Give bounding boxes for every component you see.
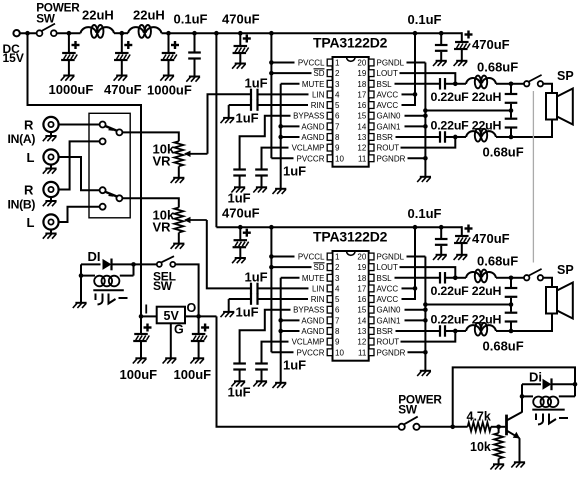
svg-text:TPA3122D2: TPA3122D2	[313, 229, 388, 245]
svg-text:470uF: 470uF	[472, 37, 510, 52]
svg-text:100uF: 100uF	[174, 367, 212, 382]
svg-text:AVCC: AVCC	[377, 284, 399, 293]
wire	[511, 314, 552, 331]
node junction C5	[238, 31, 243, 36]
ground	[165, 357, 176, 359]
wire reg out	[185, 315, 217, 317]
ground	[116, 75, 127, 77]
ground	[456, 60, 467, 62]
ground	[256, 380, 267, 382]
node relay1 right	[131, 262, 136, 267]
svg-text:2: 2	[335, 69, 340, 78]
svg-text:20: 20	[357, 59, 366, 68]
svg-text:1000uF: 1000uF	[147, 83, 192, 98]
svg-text:4: 4	[335, 284, 340, 293]
node AVCC17 U1	[413, 92, 418, 97]
svg-text:0.1uF: 0.1uF	[408, 12, 442, 27]
U2 pin boxes	[327, 253, 332, 260]
wire MUTE/AGND ground vertical U1	[280, 84, 282, 189]
wire pin2 SD	[271, 72, 311, 74]
wire	[452, 330, 466, 332]
svg-text:22uH: 22uH	[133, 8, 165, 23]
svg-text:11: 11	[358, 154, 367, 163]
wire PVCC vertical U2	[270, 227, 272, 352]
ground	[275, 382, 286, 384]
svg-text:1uF: 1uF	[236, 111, 259, 126]
svg-text:0.22uF 22uH: 0.22uF 22uH	[431, 284, 502, 298]
node SD U2	[269, 265, 274, 270]
capacitor C7 470uF	[461, 41, 463, 43]
svg-text:19: 19	[357, 263, 366, 272]
svg-text:470uF: 470uF	[472, 231, 510, 246]
svg-text:19: 19	[357, 69, 366, 78]
wire	[134, 263, 157, 265]
node ROUT out U1	[509, 135, 514, 140]
wire pin14 GAIN1	[405, 319, 426, 321]
ground	[235, 63, 246, 65]
wire	[543, 278, 552, 287]
wire reg input	[141, 315, 157, 317]
svg-text:AVCC: AVCC	[377, 295, 399, 304]
relay RY1 bar	[93, 289, 124, 291]
node junction C10	[439, 225, 444, 230]
switch SP1	[524, 81, 529, 86]
wire 5V to power sw	[217, 316, 399, 426]
wire collector up	[521, 384, 523, 412]
node AVCC17 U2	[413, 286, 418, 291]
wire J1 to selector	[59, 124, 100, 126]
svg-text:15V: 15V	[3, 51, 24, 65]
svg-text:5: 5	[335, 101, 340, 110]
wire reg gnd	[170, 323, 172, 358]
wire AVCC vertical U2	[402, 227, 416, 299]
wire VR2 wiper to C8b	[207, 220, 250, 288]
ground	[235, 257, 246, 259]
svg-text:17: 17	[357, 90, 366, 99]
svg-text:11: 11	[358, 348, 367, 357]
svg-text:0.22uF 22uH: 0.22uF 22uH	[431, 90, 502, 104]
svg-text:0.1uF: 0.1uF	[174, 12, 208, 27]
svg-text:14: 14	[357, 122, 366, 131]
node mid 068 U2	[509, 302, 514, 307]
node relay1 coil left	[79, 273, 84, 278]
wire	[114, 32, 128, 34]
wire pin11 PGNDR	[408, 157, 426, 159]
svg-text:TPA3122D2: TPA3122D2	[313, 35, 388, 51]
node GAIN1 U2	[423, 318, 428, 323]
svg-text:VCLAMP: VCLAMP	[292, 338, 325, 347]
svg-text:SD: SD	[313, 69, 324, 78]
capacitor 0.68uF L U2	[510, 278, 512, 287]
svg-text:13: 13	[357, 327, 366, 336]
switch SELA contact B	[100, 138, 106, 144]
svg-text:DI: DI	[88, 249, 101, 264]
wire rail2 end down	[461, 226, 463, 236]
capacitor 0.22uF BSL U1	[395, 83, 440, 85]
svg-text:VR: VR	[153, 220, 172, 235]
op-amp U2 TPA3122D2 body	[333, 251, 369, 361]
switch SELA contact A	[100, 122, 106, 128]
node AGND7 U2	[278, 318, 283, 323]
svg-text:1: 1	[335, 59, 340, 68]
inductor L1 22uH	[81, 27, 97, 33]
svg-text:BYPASS: BYPASS	[293, 306, 324, 315]
relay RY2 bar	[532, 409, 564, 411]
wire MUTE/AGND ground vertical U2	[280, 278, 282, 383]
node junction C3	[166, 31, 171, 36]
svg-text:R: R	[24, 118, 34, 133]
wire pin3 MUTE	[281, 83, 300, 85]
svg-text:RIN: RIN	[311, 295, 325, 304]
wire	[511, 83, 524, 85]
wire pin10 PVCCR	[271, 157, 293, 159]
svg-text:IN(A): IN(A)	[8, 132, 36, 146]
wire SEL to 5V out	[175, 264, 198, 316]
svg-text:7: 7	[335, 122, 340, 131]
svg-text:AGND: AGND	[301, 133, 324, 142]
svg-text:0.68uF: 0.68uF	[483, 339, 524, 354]
svg-text:470uF: 470uF	[222, 12, 260, 27]
node relay2 left	[520, 394, 525, 399]
wire pin17 AVCC	[402, 287, 416, 289]
RCA jack J1	[43, 117, 58, 132]
wire J2 to selector	[59, 157, 100, 190]
svg-text:GAIN0: GAIN0	[377, 306, 402, 315]
node BSR U1	[453, 135, 458, 140]
svg-text:RIN: RIN	[311, 101, 325, 110]
wire VR1 wiper to C8	[208, 94, 251, 154]
capacitor 1uF LIN U2	[249, 287, 251, 289]
wire pin12 ROUT	[401, 331, 456, 342]
potentiometer VR2 10k	[174, 208, 183, 233]
wire pin19 LOUT	[400, 267, 456, 278]
svg-text:1000uF: 1000uF	[49, 82, 94, 97]
svg-text:AGND: AGND	[301, 316, 324, 325]
svg-text:VR: VR	[153, 154, 172, 169]
node junction PVCC2	[269, 225, 274, 230]
svg-text:0.1uF: 0.1uF	[408, 206, 442, 221]
node junction C4	[192, 31, 197, 36]
node SD U1	[269, 71, 274, 76]
wire pin20 PGNDL	[407, 62, 426, 64]
capacitor 0.22uF BSL U2	[395, 277, 440, 279]
wire	[452, 277, 466, 279]
svg-text:PGNDR: PGNDR	[377, 348, 406, 357]
capacitor C10 0.1uF	[440, 227, 442, 238]
SP switch gang link	[532, 91, 534, 263]
svg-text:13: 13	[357, 133, 366, 142]
svg-text:SW: SW	[153, 279, 173, 293]
wire	[491, 426, 505, 428]
node mid 068 U1	[509, 108, 514, 113]
resistor R1 4.7k	[468, 422, 491, 431]
ground	[50, 197, 52, 200]
svg-text:AGND: AGND	[301, 327, 324, 336]
wire	[420, 426, 468, 428]
inductor L2 22uH	[128, 27, 144, 33]
node PGNDR U1	[423, 156, 428, 161]
capacitor C11 470uF	[461, 235, 463, 237]
wire RIN gnd U1	[228, 105, 230, 118]
wire mid ground line U2	[425, 304, 511, 306]
inductor 22uH LOUT U2	[466, 272, 480, 278]
wire	[511, 277, 524, 279]
svg-text:4: 4	[335, 90, 340, 99]
node AGND8 U2	[278, 329, 283, 334]
svg-text:1uF: 1uF	[245, 270, 268, 285]
svg-text:I: I	[145, 303, 148, 317]
svg-text:9: 9	[335, 338, 340, 347]
svg-text:10: 10	[335, 348, 344, 357]
ground	[436, 254, 447, 256]
node LOUT out U2	[509, 275, 514, 280]
svg-text:AVCC: AVCC	[377, 90, 399, 99]
node AGND8 U1	[278, 135, 283, 140]
svg-text:L: L	[27, 215, 35, 230]
ground	[514, 461, 525, 463]
svg-text:0.22uF 22uH: 0.22uF 22uH	[431, 313, 502, 327]
switch POWER SW (top)	[37, 30, 43, 36]
svg-text:6: 6	[335, 306, 340, 315]
capacitor 1uF BYPASS U2	[239, 361, 241, 364]
inductor 22uH LOUT U1	[466, 78, 480, 84]
capacitor C6 0.1uF	[440, 33, 442, 44]
switch SELB common	[116, 195, 122, 201]
switch SEL SW	[157, 262, 162, 267]
capacitor 1uF VCLAMP U1	[261, 167, 263, 170]
switch SELB lever	[105, 192, 116, 197]
svg-text:LOUT: LOUT	[377, 69, 398, 78]
svg-text:15: 15	[357, 112, 366, 121]
wire pin7 AGND	[281, 319, 300, 321]
RCA jack J4	[43, 214, 58, 229]
svg-text:0.22uF 22uH: 0.22uF 22uH	[431, 119, 502, 133]
node BSL U2	[453, 275, 458, 280]
svg-text:BSR: BSR	[377, 327, 394, 336]
wire rail2	[216, 226, 461, 228]
svg-text:AGND: AGND	[301, 122, 324, 131]
svg-text:3: 3	[335, 80, 340, 89]
ground	[63, 75, 74, 77]
ground	[75, 302, 86, 304]
ground	[420, 176, 431, 178]
svg-text:0.68uF: 0.68uF	[477, 60, 518, 75]
ground	[456, 254, 467, 256]
svg-text:100uF: 100uF	[120, 367, 158, 382]
RCA jack J3	[43, 182, 58, 197]
wire pin11 PGNDR	[408, 351, 426, 353]
node junction PVCC1	[269, 31, 274, 36]
wire SELB to VR2	[122, 198, 178, 207]
svg-text:8: 8	[335, 133, 340, 142]
selector box	[89, 113, 130, 218]
speaker SP2	[546, 287, 557, 314]
svg-text:BSL: BSL	[377, 80, 393, 89]
wire pin14 GAIN1	[405, 125, 426, 127]
svg-text:3: 3	[335, 274, 340, 283]
wire	[452, 83, 466, 85]
svg-text:G: G	[174, 323, 184, 337]
wire pin1 PVCCL	[271, 62, 294, 64]
svg-text:14: 14	[357, 316, 366, 325]
relay RY1 coil	[81, 275, 95, 277]
node power node	[450, 425, 455, 430]
node LOUT out U1	[509, 81, 514, 86]
capacitor C3 1000uF	[168, 33, 170, 53]
node ROUT out U2	[509, 329, 514, 334]
node mid-gnd U1	[423, 108, 428, 113]
capacitor C9 470uF	[239, 227, 241, 240]
ground	[256, 186, 267, 188]
ground	[275, 188, 286, 190]
VR2 wiper arrow	[185, 219, 207, 221]
wire pin8 AGND	[281, 136, 300, 138]
diode D2	[522, 383, 541, 385]
node AGND7 U1	[278, 124, 283, 129]
wire pin12 ROUT	[401, 137, 456, 148]
label relay RY2	[535, 414, 537, 421]
wire SELA to VR1	[122, 132, 178, 141]
svg-text:PGNDR: PGNDR	[377, 154, 406, 163]
wire	[543, 84, 552, 93]
wire relay feed up	[453, 367, 575, 426]
label relay RY1	[95, 294, 97, 301]
wire J4 to selector	[59, 207, 100, 222]
svg-text:ROUT: ROUT	[377, 144, 400, 153]
svg-text:MUTE: MUTE	[302, 80, 325, 89]
resistor R2 10k	[494, 433, 503, 459]
svg-text:8: 8	[335, 327, 340, 336]
ground	[436, 60, 447, 62]
svg-text:PVCCR: PVCCR	[296, 348, 324, 357]
wire	[496, 83, 511, 85]
node PVCCL U1	[269, 60, 274, 65]
ground	[173, 243, 184, 245]
ground	[223, 311, 234, 313]
node PVCCL U2	[269, 254, 274, 259]
node junction AVCC2	[413, 225, 418, 230]
wire	[57, 32, 81, 34]
switch POWER SW2	[399, 424, 405, 430]
svg-text:1: 1	[335, 253, 340, 262]
transistor Q1	[505, 415, 508, 436]
node junction C6	[439, 31, 444, 36]
capacitor C13 100uF	[198, 316, 200, 334]
ground	[135, 357, 146, 359]
svg-text:4.7k: 4.7k	[467, 410, 491, 424]
node reg in	[139, 314, 144, 319]
svg-text:BSL: BSL	[377, 274, 393, 283]
capacitor 1uF RIN U1	[229, 104, 250, 106]
capacitor C12 100uF	[140, 316, 142, 334]
ground	[189, 76, 200, 78]
svg-text:SW: SW	[36, 11, 56, 25]
node junction C2	[120, 31, 125, 36]
wire rail end down	[461, 32, 463, 42]
wire pin9 VCLAMP	[262, 342, 289, 362]
svg-text:10: 10	[335, 154, 344, 163]
capacitor 0.68uF R U1	[510, 111, 512, 118]
wire	[452, 136, 466, 138]
svg-text:LIN: LIN	[312, 284, 325, 293]
svg-text:470uF: 470uF	[104, 82, 142, 97]
svg-text:SP: SP	[557, 69, 574, 83]
svg-text:BYPASS: BYPASS	[293, 112, 324, 121]
svg-text:16: 16	[357, 295, 366, 304]
DC input terminal	[13, 30, 19, 36]
ground	[420, 370, 431, 372]
wire relay1 left vert	[80, 264, 82, 302]
node mid-gnd U2	[423, 302, 428, 307]
VR1 wiper arrow	[185, 153, 207, 155]
svg-text:470uF: 470uF	[222, 206, 260, 221]
svg-text:SP: SP	[557, 263, 574, 277]
capacitor C2 470uF	[121, 33, 123, 53]
node junction AVCC1	[413, 31, 418, 36]
wire PGND vertical U1	[424, 63, 426, 177]
capacitor C4 0.1uF	[194, 33, 196, 51]
switch SP2	[524, 275, 529, 280]
ground	[163, 75, 174, 77]
wire J3 to selector	[59, 141, 100, 189]
svg-text:16: 16	[357, 101, 366, 110]
wire	[81, 263, 101, 265]
ground	[193, 357, 204, 359]
ground	[173, 177, 184, 179]
svg-text:7: 7	[335, 316, 340, 325]
node base node	[496, 425, 501, 430]
switch SELA common	[116, 129, 122, 135]
inductor 22uH ROUT U1	[466, 131, 480, 137]
wire RIN gnd U2	[228, 299, 230, 312]
svg-text:6: 6	[335, 112, 340, 121]
wire emitter down	[519, 438, 521, 462]
capacitor 1uF LIN U1	[249, 93, 251, 95]
svg-text:LOUT: LOUT	[377, 263, 398, 272]
wire	[178, 166, 180, 177]
wire PVCC vertical U1	[270, 33, 272, 158]
node GAIN1 U1	[423, 124, 428, 129]
svg-text:12: 12	[357, 338, 366, 347]
wire	[178, 233, 180, 244]
node junction C9	[238, 225, 243, 230]
svg-text:5: 5	[335, 295, 340, 304]
wire pin7 AGND	[281, 125, 300, 127]
svg-text:GAIN0: GAIN0	[377, 112, 402, 121]
svg-text:22uH: 22uH	[82, 8, 114, 23]
regulator 5V box	[157, 307, 185, 324]
wire	[496, 330, 511, 332]
node junction DC+	[25, 31, 30, 36]
svg-text:20: 20	[357, 253, 366, 262]
ground	[223, 117, 234, 119]
capacitor 0.22uF BSR U1	[396, 136, 440, 138]
svg-text:18: 18	[357, 80, 366, 89]
U1 pin boxes	[327, 59, 332, 66]
svg-text:1uF: 1uF	[228, 385, 251, 400]
svg-text:PVCCR: PVCCR	[296, 154, 324, 163]
capacitor 1uF BYPASS U1	[239, 167, 241, 170]
wire pin17 AVCC	[402, 93, 416, 95]
wire AVCC vertical U1	[402, 33, 416, 105]
svg-text:PVCCL: PVCCL	[298, 59, 325, 68]
svg-text:SD: SD	[313, 263, 324, 272]
wire DC+ feed	[28, 33, 142, 316]
speaker SP1	[546, 93, 557, 120]
switch SELA lever	[105, 126, 116, 131]
capacitor 0.22uF BSR U2	[396, 330, 440, 332]
wire pin15 GAIN0	[405, 309, 426, 311]
